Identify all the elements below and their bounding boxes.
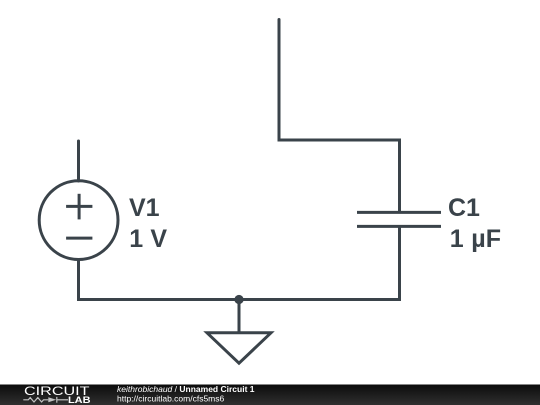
svg-text:1µF: 1µF [450,225,501,253]
wire V1 bottom terminal [77,259,80,300]
wire V1 top terminal [77,141,80,181]
wire right vertical lower [398,227,401,302]
wire bottom horizontal [77,298,401,301]
ground [207,333,271,363]
voltage source V1 [39,181,118,260]
wire top vertical [278,20,281,141]
svg-text:1V: 1V [129,225,167,253]
svg-text:LAB: LAB [68,395,91,405]
capacitor C1 [357,212,441,226]
wire ground stub [238,300,241,335]
svg-text:keithrobichaud / Unnamed Circu: keithrobichaud / Unnamed Circuit 1 [117,384,255,394]
footer bar [0,385,540,405]
svg-text:http://circuitlab.com/cfs5ms6: http://circuitlab.com/cfs5ms6 [117,394,225,404]
node junction [234,295,243,304]
svg-text:V1: V1 [129,194,160,222]
wire right vertical upper [398,140,401,212]
svg-text:C1: C1 [448,194,480,222]
logo resistor and diode symbol [23,397,68,403]
wire top horizontal [278,139,402,142]
